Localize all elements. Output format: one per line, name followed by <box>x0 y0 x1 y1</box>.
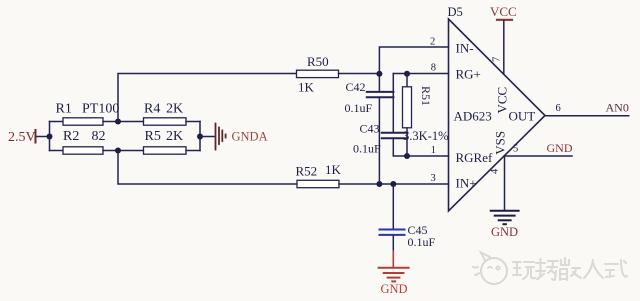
wire R1 to node <box>103 121 144 123</box>
svg-text:AN0: AN0 <box>606 101 629 115</box>
wire pin4 lead <box>504 156 506 210</box>
svg-text:D5: D5 <box>448 5 463 19</box>
wire left rail lower (C42 to pin3 row) <box>378 98 380 184</box>
svg-text:PT100: PT100 <box>82 102 119 117</box>
resistor R52 body <box>297 180 339 187</box>
svg-text:GNDA: GNDA <box>232 129 268 143</box>
svg-text:VCC: VCC <box>490 4 517 19</box>
svg-text:IN+: IN+ <box>456 176 477 191</box>
wire bridge bottom node down to R52 row <box>118 151 297 185</box>
wire bridge top node up to R50 row <box>118 74 297 122</box>
capacitor C43 <box>382 133 408 139</box>
svg-text:0.1uF: 0.1uF <box>408 235 436 249</box>
svg-text:82: 82 <box>92 129 106 144</box>
svg-text:2.5V: 2.5V <box>8 130 36 145</box>
svg-text:C43: C43 <box>360 122 380 136</box>
svg-text:1: 1 <box>431 145 436 156</box>
wire C45 bottom lead <box>392 236 394 252</box>
svg-text:VSS: VSS <box>493 131 508 155</box>
svg-text:R4: R4 <box>144 102 160 117</box>
svg-text:R52: R52 <box>296 164 318 179</box>
svg-text:0.1uF: 0.1uF <box>345 101 373 115</box>
wire pin7 lead <box>503 21 505 75</box>
wire pin5 lead <box>505 155 573 157</box>
power VCC bar <box>497 19 512 21</box>
node bridge bottom <box>115 148 121 154</box>
svg-text:1K: 1K <box>325 162 342 177</box>
ground GND symbol below C45 (red) <box>379 251 409 281</box>
wire R52 to pin3 <box>339 183 449 185</box>
svg-text:IN-: IN- <box>456 41 474 56</box>
node R51 top <box>404 71 410 77</box>
svg-text:4: 4 <box>490 168 501 174</box>
resistor R51 body <box>403 87 412 128</box>
svg-text:AD623: AD623 <box>454 109 492 124</box>
node R51 bottom <box>404 153 410 159</box>
svg-text:RGRef: RGRef <box>456 150 494 165</box>
watermark logo <box>473 253 507 285</box>
wire R5 right <box>186 150 200 152</box>
wire bridge right vertical <box>199 122 201 151</box>
svg-text:C42: C42 <box>346 80 366 94</box>
svg-text:2K: 2K <box>166 102 183 117</box>
wire pin8 row <box>393 73 448 75</box>
wire bottom row left <box>50 150 64 152</box>
watermark text 玩转嵌入式 (vector strokes) <box>513 258 627 280</box>
resistor R1 body <box>63 118 103 125</box>
svg-text:7: 7 <box>492 57 503 62</box>
ground GND symbol below op-amp <box>491 211 519 224</box>
svg-text:2: 2 <box>430 37 435 48</box>
wire right rail upper (pin8 corner down to C43) <box>392 74 394 133</box>
resistor R2 body <box>63 147 103 154</box>
wire R51 top lead <box>406 74 408 89</box>
svg-text:3.3K-1%: 3.3K-1% <box>403 129 448 143</box>
node pin3 row left <box>376 181 382 187</box>
node A (IN- net) <box>376 71 382 77</box>
node bridge right <box>197 134 203 140</box>
wire top row left <box>50 121 64 123</box>
wire right rail lower (C43 to pin1 row) <box>393 139 448 156</box>
svg-text:6: 6 <box>556 103 561 114</box>
wire R2 to node <box>103 150 144 152</box>
svg-text:R51: R51 <box>419 86 433 106</box>
svg-text:3: 3 <box>431 173 436 184</box>
resistor R50 body <box>297 70 339 77</box>
svg-text:GND: GND <box>491 225 518 239</box>
svg-text:R1: R1 <box>56 102 72 117</box>
wire node A up to pin2 row <box>379 47 448 74</box>
wire bridge left vertical <box>49 122 51 151</box>
resistor R4 body <box>144 118 187 125</box>
node bridge top <box>115 119 121 125</box>
wire to GNDA <box>200 136 215 138</box>
wire port to bridge node <box>37 136 50 138</box>
svg-text:R5: R5 <box>145 129 161 144</box>
svg-text:OUT: OUT <box>509 109 536 124</box>
wire R4 right <box>186 121 200 123</box>
svg-text:8: 8 <box>431 63 436 74</box>
port 2.5V bar <box>35 130 37 143</box>
svg-text:R2: R2 <box>63 129 79 144</box>
resistor R5 body <box>144 147 187 154</box>
ground GNDA symbol <box>216 124 226 150</box>
wire C45 top lead <box>392 184 394 229</box>
svg-text:R50: R50 <box>307 54 329 69</box>
capacitor C42 <box>367 92 394 97</box>
svg-text:5: 5 <box>513 144 518 155</box>
capacitor C45 <box>380 230 405 235</box>
svg-text:GND: GND <box>381 282 408 296</box>
svg-text:VCC: VCC <box>495 87 510 114</box>
node 2.5V junction <box>47 134 53 140</box>
svg-text:GND: GND <box>547 141 573 155</box>
svg-text:RG+: RG+ <box>456 67 481 82</box>
wire R50 to node A <box>339 73 380 75</box>
wire pin6 output <box>545 115 629 117</box>
svg-text:1K: 1K <box>298 79 315 94</box>
svg-text:0.1uF: 0.1uF <box>353 142 381 156</box>
wire R51 bottom lead <box>406 128 408 156</box>
node pin3 row right <box>390 181 396 187</box>
wire left rail upper (node A to C42) <box>378 74 380 92</box>
svg-text:2K: 2K <box>166 129 183 144</box>
op-amp U D5 triangle <box>449 19 546 211</box>
